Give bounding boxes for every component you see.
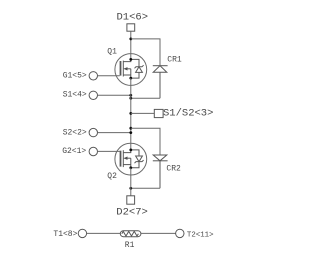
terminal pad D1 — [127, 24, 135, 31]
svg-text:S1<4>: S1<4> — [63, 91, 87, 100]
wire rail to CR2 anode — [131, 128, 160, 155]
junction D2/CR2 node — [129, 187, 132, 190]
wire S1 to source rail — [98, 94, 131, 96]
Q2 zener triangle — [136, 156, 143, 162]
terminal pin T1 — [78, 229, 86, 237]
terminal pad D2 — [127, 196, 135, 204]
Q2 body arrow stub — [127, 157, 131, 159]
Q2 zener top lead — [131, 150, 139, 156]
Q2 zener bottom lead — [131, 162, 139, 168]
Q1 body circle — [115, 54, 147, 86]
svg-text:Q1: Q1 — [107, 47, 117, 56]
Q1 body/source vertical — [130, 69, 132, 78]
Q1 zener triangle — [136, 67, 143, 73]
wire S2 to source rail — [98, 132, 131, 134]
Q2 gate bar — [120, 151, 122, 167]
svg-text:R1: R1 — [125, 241, 135, 250]
junction S2 node — [129, 131, 132, 134]
junction Q1 source node — [129, 77, 132, 80]
terminal pin T2 — [176, 229, 184, 237]
wire common source rail Q1 to Q2 — [130, 78, 132, 150]
junction Q2 top node — [129, 149, 132, 152]
wire G2 to Q2 gate — [98, 150, 120, 152]
svg-text:S2<2>: S2<2> — [63, 128, 87, 137]
wire drain node to CR1 cathode — [131, 39, 160, 66]
wire G1 to Q1 gate — [98, 75, 120, 77]
wire CR1 anode to source node — [131, 97, 160, 99]
svg-text:CR1: CR1 — [167, 56, 182, 65]
Q1 body arrow stub — [127, 68, 131, 70]
Q2 top stub — [123, 150, 131, 153]
svg-text:G2<1>: G2<1> — [62, 147, 86, 156]
diode CR1 — [153, 66, 168, 99]
Q2 body circle — [115, 143, 147, 175]
svg-text:D1<6>: D1<6> — [117, 12, 149, 24]
terminal pin S2 — [89, 128, 97, 136]
junction Q2 bottom node — [129, 166, 132, 169]
svg-text:CR2: CR2 — [166, 165, 181, 174]
Q2 body/source vertical — [130, 158, 132, 168]
terminal pin S1 — [89, 91, 97, 99]
Q2 source stub — [123, 164, 131, 166]
svg-text:G1<5>: G1<5> — [63, 72, 87, 81]
Q1 drain stub — [123, 59, 131, 61]
junction CR2 anode node — [129, 127, 132, 130]
wire T1 to R1 — [87, 232, 121, 234]
Q1 gate bar — [120, 61, 122, 76]
wire rail to S1/S2 pad — [131, 112, 155, 114]
mosfet Q2 — [115, 143, 147, 175]
wire D1 pad to Q1 drain — [130, 31, 132, 59]
Q2 zener cathode bar — [135, 160, 144, 163]
junction S1/S2 tap — [129, 112, 132, 115]
Q1 channel bar — [122, 61, 124, 77]
wire CR2 cathode to drain node — [131, 187, 160, 189]
svg-text:T2<11>: T2<11> — [187, 231, 214, 239]
terminal pad S1/S2 — [154, 109, 163, 117]
terminal pin G1 — [89, 72, 97, 80]
Q1 zener bottom lead — [131, 72, 139, 78]
svg-text:D2<7>: D2<7> — [116, 207, 148, 219]
wire Q2 drain to D2 pad — [130, 168, 132, 196]
svg-text:T1<8>: T1<8> — [53, 230, 77, 239]
mosfet Q1 — [115, 54, 147, 86]
Q1 zener top lead — [131, 59, 139, 66]
junction CR1 anode node — [129, 97, 132, 100]
Q1 source stub — [123, 74, 131, 76]
Q1 zener cathode bar — [135, 65, 144, 68]
terminal pin G2 — [89, 147, 97, 155]
resistor R1 — [120, 231, 141, 237]
junction S1 node — [129, 94, 132, 97]
wire R1 to T2 — [141, 232, 176, 234]
svg-text:S1/S2<3>: S1/S2<3> — [163, 108, 213, 120]
svg-text:Q2: Q2 — [107, 172, 117, 181]
junction drain/CR1 node — [129, 38, 132, 41]
junction Q1 drain node — [129, 58, 132, 61]
Q2 channel bar — [122, 150, 124, 167]
diode CR2 — [153, 155, 168, 188]
